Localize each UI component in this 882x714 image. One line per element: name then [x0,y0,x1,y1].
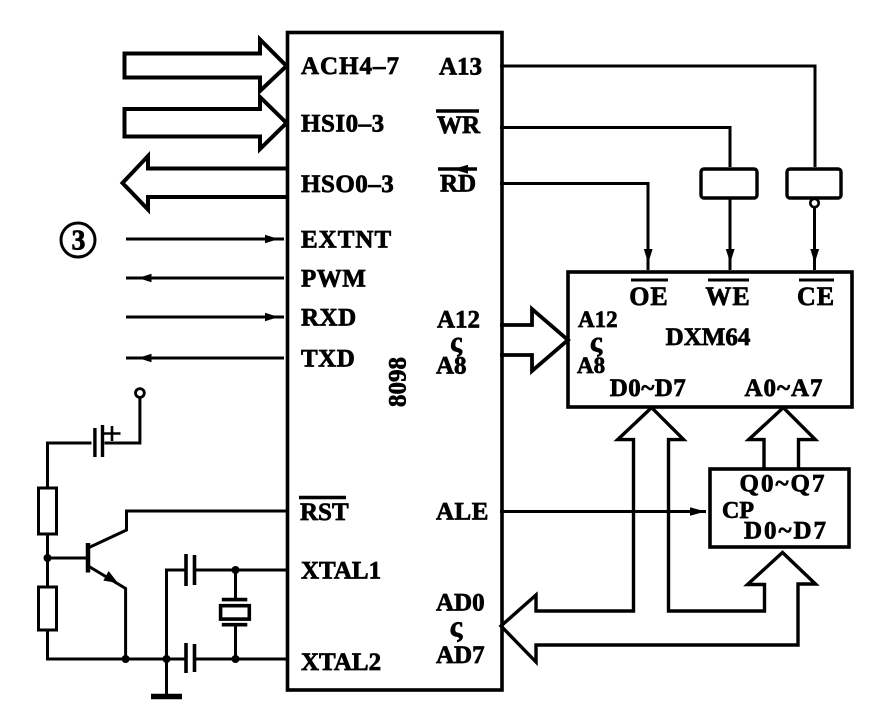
gate box G1 (WE path) [701,169,757,198]
wire box to WE with arrow [726,198,735,270]
wire ALE to CP with arrow [500,507,706,515]
svg-text:D0~D7: D0~D7 [610,375,687,402]
wire RD to OE with arrow [500,184,653,271]
wire between R1 and R2 [46,534,49,587]
latch U3 box [710,469,849,547]
pin label AD0~AD7 stack [436,590,485,670]
wire top of R1 up and to cap C1 [48,443,92,488]
capacitor C1 electrolytic plates [95,425,103,457]
pin label RD with overline [438,165,477,198]
svg-text:OE: OE [629,282,669,311]
capacitor C2 plates [186,554,195,586]
wire R2 bottom to rail [46,630,49,661]
svg-text:TXD: TXD [301,346,355,373]
svg-text:XTAL2: XTAL2 [301,649,381,676]
wire EXTNT with arrow [126,235,284,243]
transistor Q1 base bar [86,543,91,573]
svg-text:PWM: PWM [301,266,366,293]
wire C1 to terminal [105,398,140,444]
svg-text:A0~A7: A0~A7 [744,375,823,402]
memory U2 DXM64 box [568,272,852,407]
node label circled 3 [61,223,95,257]
svg-text:ACH4–7: ACH4–7 [301,53,400,80]
label CE with overline [797,280,835,311]
svg-text:8098: 8098 [385,357,412,407]
svg-text:WE: WE [705,282,750,311]
svg-text:ς: ς [450,610,463,643]
wire RXD with arrow [126,313,284,321]
svg-text:A8: A8 [577,353,605,378]
svg-text:WR: WR [437,112,481,139]
transistor Q1 emitter with arrow [89,567,126,660]
ground symbol [151,694,182,700]
bus arrow into HSI0-3 [125,97,287,149]
node dot emitter on rail [122,655,130,663]
label A12~A8 inside DXM64 [577,307,618,378]
wire XTAL1 cap to ground leg [167,570,185,694]
gate box G2 (CE path) [787,169,841,198]
svg-text:HSI0–3: HSI0–3 [301,111,385,138]
pin label RST with overline [299,498,349,527]
crystal Y1 [221,570,250,659]
wire TXD with arrow [126,354,284,362]
svg-text:AD7: AD7 [436,642,485,669]
wire XTAL1 [196,569,286,572]
svg-text:D0~D7: D0~D7 [744,518,828,545]
bottom rail left of C3 [46,658,185,661]
bus AD0-AD7 outline with arrows to DXM64 and latch [501,408,816,662]
wire PWM with arrow [126,274,284,282]
bus arrow into ACH4-7 [125,40,287,92]
wire bubble to CE with arrow [810,208,819,271]
node dot crystal bottom [232,655,240,663]
wire WR to WE box [500,128,730,168]
bus arrow A12~A8 from 8098 to DXM64 [500,309,568,371]
svg-text:CE: CE [797,282,835,311]
svg-text:RXD: RXD [301,305,357,332]
bus arrow out of HSO0-3 [123,156,287,210]
wire XTAL2 [196,658,286,661]
node dot ground leg on rail [163,655,171,663]
svg-text:RD: RD [440,171,476,198]
plus sign of C1 [104,426,121,441]
IC U1 8098 box [288,33,503,691]
label OE with overline [629,280,669,311]
node dot crystal top [232,566,240,574]
capacitor C3 plates [186,643,195,673]
wire base to divider node [46,557,86,560]
bus arrow latch Q to DXM64 A0~A7 [749,408,816,469]
resistor R1 [39,488,57,534]
svg-text:Q0~Q7: Q0~Q7 [740,471,827,498]
svg-text:EXTNT: EXTNT [301,227,392,254]
wire RST from transistor collector [89,511,286,548]
svg-text:ALE: ALE [436,499,489,526]
pin label A12~A8 stack [436,307,480,380]
resistor R2 [39,587,57,630]
svg-text:XTAL1: XTAL1 [301,558,381,585]
svg-text:RST: RST [300,499,349,526]
svg-text:DXM64: DXM64 [666,324,751,351]
wire A13 to CE box [500,66,815,167]
terminal circle RESET input [136,389,145,398]
node dot divider [44,554,52,562]
label WE with overline [705,280,750,311]
svg-text:A13: A13 [439,54,482,81]
inverter bubble on CE path [810,199,818,207]
svg-text:3: 3 [72,226,86,257]
svg-text:HSO0–3: HSO0–3 [301,171,394,198]
pin label WR with overline [436,111,481,139]
svg-text:A8: A8 [436,353,467,380]
